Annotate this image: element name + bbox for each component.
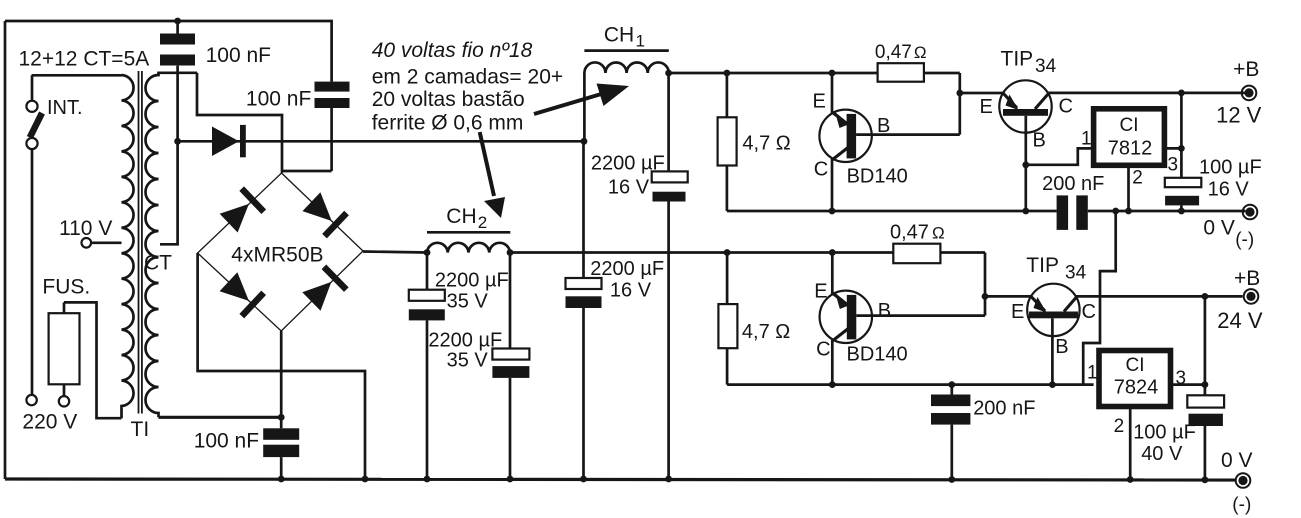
svg-text:B: B bbox=[877, 115, 890, 137]
svg-text:CT: CT bbox=[144, 252, 172, 275]
svg-text:(-): (-) bbox=[1232, 495, 1251, 516]
svg-text:1: 1 bbox=[636, 32, 645, 51]
wire left frame bbox=[4, 21, 7, 479]
svg-text:B: B bbox=[1033, 130, 1046, 152]
node TIP34 C 24V bbox=[1202, 293, 1209, 300]
annotation arrow to CH1 bbox=[534, 84, 629, 115]
node 0V rail x668 bbox=[665, 476, 672, 483]
resistor 0,47 ohm (12V) bbox=[878, 63, 924, 81]
svg-text:B: B bbox=[878, 300, 891, 322]
annotation arrow to CH2 bbox=[480, 132, 505, 218]
node CH2 output bbox=[507, 249, 514, 256]
capacitor 200nF (12V, series drawn) bbox=[1042, 173, 1104, 230]
capacitor 2200uF 16V lower (on rectified line) bbox=[566, 141, 665, 479]
transistor Q1 BD140 (12V) bbox=[813, 73, 960, 211]
node 0,47 / base 24V bbox=[982, 293, 989, 300]
node TIP34 B rail 12V bbox=[1022, 208, 1029, 215]
transformer TI secondary winding bbox=[146, 73, 197, 418]
svg-text:B: B bbox=[1055, 336, 1068, 358]
svg-text:3: 3 bbox=[1168, 155, 1179, 176]
svg-text:100 nF: 100 nF bbox=[246, 88, 311, 111]
svg-text:35 V: 35 V bbox=[447, 291, 489, 313]
svg-text:100 µF: 100 µF bbox=[1199, 157, 1262, 179]
wire secondary top to bridge top bbox=[197, 73, 282, 173]
svg-text:CI: CI bbox=[1120, 115, 1139, 136]
svg-text:100 nF: 100 nF bbox=[206, 44, 271, 67]
node pin2 rail 12V bbox=[1125, 208, 1132, 215]
junction node dots bbox=[174, 18, 1208, 484]
inductor CH2 bbox=[427, 205, 510, 253]
node pin3 12V bbox=[1178, 145, 1185, 152]
transistor Q3 BD140 (24V) bbox=[814, 253, 985, 385]
svg-text:2: 2 bbox=[1132, 168, 1143, 189]
node 0V rail x951 bbox=[948, 476, 955, 483]
svg-text:0,47Ω: 0,47Ω bbox=[875, 42, 927, 63]
transistor Q2 TIP34 (12V) bbox=[960, 47, 1246, 211]
wire fuse to primary bottom bbox=[64, 302, 122, 418]
node 0,47 / base 12V bbox=[956, 90, 963, 97]
node BD140 E 12V bbox=[829, 70, 836, 77]
bridge diode bottom-left bbox=[218, 270, 267, 318]
wire 12V-to-24V link bbox=[1083, 211, 1116, 385]
terminal 220V left bbox=[26, 395, 36, 405]
regulator U2 CI 7824 bbox=[1087, 296, 1205, 479]
node secondary bottom / bridge bbox=[278, 414, 285, 421]
capacitor 100uF 16V bbox=[1165, 157, 1262, 212]
wire CH2 rail to 0,47 bbox=[940, 251, 985, 254]
capacitor 2200uF 35V first bbox=[409, 253, 509, 480]
node BD140 C 12V bbox=[829, 208, 836, 215]
svg-text:E: E bbox=[980, 96, 993, 118]
capacitor 2200uF 35V second bbox=[428, 253, 529, 480]
inductor CH1 bbox=[584, 24, 668, 142]
svg-text:16 V: 16 V bbox=[1208, 179, 1250, 201]
svg-text:+B: +B bbox=[1234, 267, 1260, 290]
node 0V rail x427 bbox=[424, 476, 431, 483]
wire 12V mid rail bbox=[727, 210, 1057, 213]
svg-text:ferrite Ø 0,6 mm: ferrite Ø 0,6 mm bbox=[372, 112, 524, 135]
svg-text:TIP: TIP bbox=[1001, 47, 1034, 70]
svg-text:200 nF: 200 nF bbox=[1042, 173, 1104, 195]
node CH1 input bbox=[581, 138, 588, 145]
node CH2 input bbox=[424, 249, 431, 256]
node TIP34 B 12V bbox=[1022, 161, 1029, 168]
svg-text:12 V: 12 V bbox=[1216, 103, 1262, 128]
transistor Q4 TIP34 (24V) bbox=[985, 254, 1243, 385]
svg-text:3: 3 bbox=[1176, 368, 1187, 389]
svg-text:16 V: 16 V bbox=[608, 177, 650, 199]
transformer 110V tap bbox=[82, 238, 92, 248]
node 0V rail x583 bbox=[580, 476, 587, 483]
capacitor 2200uF 16V at CH1 output bbox=[591, 73, 688, 479]
node top rail / C1 bbox=[174, 18, 181, 25]
wire secondary bottom bbox=[159, 416, 282, 419]
node 0V rail x365 bbox=[362, 476, 369, 483]
diode D1 bbox=[212, 125, 246, 157]
svg-text:220 V: 220 V bbox=[22, 411, 77, 434]
terminal 0V 24V bbox=[1221, 449, 1253, 516]
svg-text:2200 µF: 2200 µF bbox=[591, 152, 665, 174]
svg-text:40 V: 40 V bbox=[1141, 443, 1183, 465]
wire 12V unregulated rail bbox=[669, 72, 878, 75]
svg-text:+B: +B bbox=[1233, 58, 1259, 81]
bridge diode top-left bbox=[218, 186, 267, 234]
node 0V rail pin2 bbox=[1127, 476, 1134, 483]
node 0V rail x282 bbox=[278, 476, 285, 483]
wire 24V mid rail bbox=[727, 383, 1094, 386]
fuse FUS. bbox=[42, 276, 90, 397]
svg-text:7812: 7812 bbox=[1108, 138, 1153, 160]
svg-text:E: E bbox=[814, 281, 827, 303]
node pin3 24V bbox=[1202, 381, 1209, 388]
terminal +B 24V bbox=[1217, 267, 1263, 333]
node 4,7 top 24V bbox=[724, 249, 731, 256]
svg-text:0 V: 0 V bbox=[1203, 217, 1235, 240]
capacitor 100uF 40V bbox=[1133, 395, 1224, 480]
terminal +B 12V bbox=[1216, 58, 1262, 128]
terminal 0V 12V bbox=[1203, 205, 1257, 251]
svg-text:CI: CI bbox=[1126, 355, 1145, 376]
svg-text:2200 µF: 2200 µF bbox=[590, 258, 664, 280]
wire top rail bbox=[5, 21, 332, 82]
wire CH2 output rail bbox=[510, 251, 893, 254]
node link rail 12V bbox=[1112, 208, 1119, 215]
node BD140 E 24V bbox=[829, 249, 836, 256]
wire rectified line (diode output) bbox=[178, 140, 584, 143]
svg-text:BD140: BD140 bbox=[847, 344, 908, 366]
node 200nF top 24V bbox=[948, 381, 955, 388]
node BD140 C 24V bbox=[829, 381, 836, 388]
svg-text:16 V: 16 V bbox=[610, 280, 652, 302]
svg-text:24 V: 24 V bbox=[1217, 308, 1263, 333]
svg-text:1: 1 bbox=[1087, 363, 1098, 384]
svg-text:1: 1 bbox=[1081, 129, 1092, 150]
transformer CT tap wire bbox=[160, 141, 178, 244]
regulator U1 CI 7812 bbox=[1026, 93, 1182, 211]
svg-text:TIP: TIP bbox=[1026, 254, 1059, 277]
svg-text:100 nF: 100 nF bbox=[194, 430, 259, 453]
transformer TI primary winding bbox=[32, 75, 134, 418]
capacitor 200nF (24V) bbox=[931, 385, 1035, 480]
wire bottom 0V rail bbox=[5, 479, 1236, 480]
svg-text:0 V: 0 V bbox=[1221, 449, 1253, 472]
svg-text:C: C bbox=[814, 159, 828, 181]
transformer core bbox=[138, 71, 140, 414]
capacitor 100nF top-left bbox=[160, 21, 271, 141]
note text 40 voltas bbox=[372, 39, 563, 135]
svg-text:INT.: INT. bbox=[47, 97, 83, 119]
node CT / diode line bbox=[174, 138, 181, 145]
svg-text:100 µF: 100 µF bbox=[1133, 422, 1196, 444]
svg-text:34: 34 bbox=[1035, 56, 1057, 77]
svg-text:0,47Ω: 0,47Ω bbox=[890, 222, 945, 244]
svg-text:em 2 camadas= 20+: em 2 camadas= 20+ bbox=[372, 66, 563, 89]
wire bridge positive to CH2 bbox=[363, 252, 427, 253]
svg-text:4,7 Ω: 4,7 Ω bbox=[742, 321, 790, 343]
svg-text:4,7 Ω: 4,7 Ω bbox=[742, 133, 790, 155]
bridge diode bottom-right bbox=[300, 265, 348, 313]
node 0V rail x510 bbox=[507, 476, 514, 483]
svg-text:7824: 7824 bbox=[1114, 377, 1159, 399]
terminal 220V right bbox=[59, 396, 69, 406]
wire bridge bottom to secondary bottom bbox=[280, 331, 283, 417]
node 0V rail 100uF bbox=[1202, 476, 1209, 483]
resistor 4,7 ohm (12V) bbox=[718, 73, 791, 211]
node CH1 output bbox=[665, 70, 672, 77]
svg-text:(-): (-) bbox=[1235, 230, 1254, 251]
svg-text:200 nF: 200 nF bbox=[973, 398, 1035, 420]
svg-text:2200 µF: 2200 µF bbox=[428, 330, 502, 352]
bridge diode top-right bbox=[300, 190, 349, 238]
svg-text:CH: CH bbox=[604, 24, 634, 47]
svg-text:FUS.: FUS. bbox=[42, 276, 90, 299]
svg-text:C: C bbox=[816, 339, 830, 361]
bridge rectifier 4xMR50B outline bbox=[198, 173, 363, 331]
svg-text:2: 2 bbox=[478, 213, 487, 232]
resistor 0,47 ohm (24V) bbox=[893, 244, 940, 264]
svg-text:C: C bbox=[1082, 301, 1096, 323]
capacitor 100nF second bbox=[246, 82, 350, 171]
svg-text:BD140: BD140 bbox=[847, 166, 908, 188]
node TIP34 B 24V bbox=[1049, 381, 1056, 388]
switch INT. bbox=[26, 75, 82, 395]
capacitor 100nF bottom bbox=[194, 417, 300, 479]
svg-text:E: E bbox=[813, 91, 826, 113]
svg-text:CH: CH bbox=[446, 205, 476, 228]
svg-text:34: 34 bbox=[1065, 262, 1087, 283]
svg-text:12+12 CT=5A: 12+12 CT=5A bbox=[19, 48, 150, 71]
svg-text:40 voltas fio nº18: 40 voltas fio nº18 bbox=[372, 39, 533, 62]
svg-text:C: C bbox=[1059, 96, 1073, 118]
node 4,7 top 12V bbox=[724, 70, 731, 77]
node 100uF rail 12V bbox=[1178, 208, 1185, 215]
svg-text:TI: TI bbox=[131, 418, 150, 441]
node pin3 top 12V bbox=[1178, 90, 1185, 97]
svg-text:20 voltas bastão: 20 voltas bastão bbox=[372, 88, 525, 111]
resistor 4,7 ohm (24V) bbox=[718, 253, 790, 385]
svg-text:4xMR50B: 4xMR50B bbox=[231, 244, 323, 267]
svg-text:2200 µF: 2200 µF bbox=[435, 270, 509, 292]
svg-text:35 V: 35 V bbox=[447, 350, 489, 372]
svg-text:2: 2 bbox=[1114, 416, 1125, 437]
svg-text:E: E bbox=[1011, 301, 1024, 323]
svg-text:110 V: 110 V bbox=[59, 217, 112, 240]
wire bridge negative to 0V rail bbox=[198, 253, 365, 479]
